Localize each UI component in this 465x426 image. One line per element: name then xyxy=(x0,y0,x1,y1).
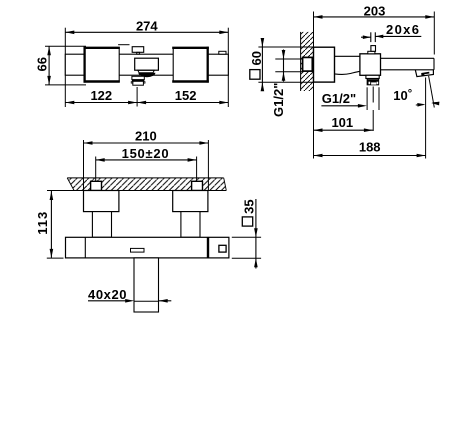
outlet ext right xyxy=(378,87,380,110)
dim 152 left arrow xyxy=(137,101,146,105)
dim 66 extension bottom xyxy=(45,84,86,86)
diverter block side xyxy=(360,54,381,76)
outlet ext left xyxy=(366,87,368,110)
wall left edge side xyxy=(300,32,302,91)
40x20 leader right xyxy=(159,300,172,302)
right inlet nut xyxy=(192,181,203,190)
dim G1/2 wall ext bottom xyxy=(275,71,302,73)
dim 113 bottom arrow xyxy=(50,249,54,258)
square symbol 35 xyxy=(242,217,252,226)
dim 122 right arrow xyxy=(128,101,137,105)
dim 150 ext left xyxy=(95,157,97,182)
svg-text:150±20: 150±20 xyxy=(122,146,169,161)
escutcheon xyxy=(314,47,335,82)
spout neck plan xyxy=(132,76,144,79)
svg-text:188: 188 xyxy=(359,140,381,155)
angle left arrow leader xyxy=(416,104,424,106)
angle left arrow xyxy=(417,103,425,107)
top knob plan xyxy=(132,47,144,53)
40x20 right arrow xyxy=(159,299,168,303)
right pipe xyxy=(181,212,200,238)
outlet nut white slot right xyxy=(377,82,379,85)
dim 35 ext top xyxy=(232,236,261,238)
wall hatch band front xyxy=(67,178,226,191)
body left cap line xyxy=(84,237,86,258)
20x6 tick right xyxy=(374,32,376,42)
angle right arrow xyxy=(431,102,439,106)
knob stem plan xyxy=(137,52,140,54)
angle vertical reference xyxy=(425,78,427,159)
dim 60 ext bottom xyxy=(258,81,313,83)
spout dark ring plan xyxy=(132,80,144,82)
body front xyxy=(66,237,229,258)
left handle plan xyxy=(84,48,119,82)
center extension line xyxy=(136,87,138,107)
wall face line side xyxy=(313,12,315,159)
20x6 tick left xyxy=(370,32,372,42)
diverter taper plan xyxy=(138,70,155,73)
dim 210 left arrow xyxy=(84,141,93,145)
dim 60 ext top xyxy=(258,46,313,48)
outlet center ext upper xyxy=(372,87,374,103)
left pipe xyxy=(92,212,111,238)
dim 113 line xyxy=(50,191,52,258)
spout end right tick xyxy=(143,82,145,83)
20x6 right leader xyxy=(375,35,421,37)
body slot xyxy=(131,248,145,252)
outlet nut white slot left xyxy=(369,82,371,85)
40x20 left arrow xyxy=(125,299,134,303)
dim 35 ext bottom xyxy=(232,257,261,259)
dim 203 left arrow xyxy=(314,15,323,19)
dim G1/2 wall bottom arrow xyxy=(282,72,286,81)
spout tube top xyxy=(381,57,435,59)
dim 66 top arrow xyxy=(47,46,51,55)
extension line plan left end xyxy=(64,28,66,107)
20x6 left arrow xyxy=(363,35,371,39)
aerator slot blob xyxy=(421,74,424,76)
20x6 right arrow xyxy=(375,35,383,39)
spout end piece plan xyxy=(133,81,144,85)
dim 35 bottom arrow outside xyxy=(254,258,258,267)
dim 210 ext left xyxy=(83,140,85,191)
svg-text:203: 203 xyxy=(364,3,386,18)
svg-text:35: 35 xyxy=(241,199,256,213)
G1/2 outlet arrow xyxy=(358,104,367,108)
outlet center ext lower xyxy=(372,110,374,131)
aerator tilted xyxy=(415,70,433,77)
svg-text:122: 122 xyxy=(90,88,112,103)
dim 101 left arrow xyxy=(314,128,323,132)
dim 203 right arrow xyxy=(425,15,434,19)
dim 66 line xyxy=(48,46,50,85)
diverter dark collar plan xyxy=(138,73,155,77)
dim 210 right arrow xyxy=(199,141,208,145)
outlet nut dark body xyxy=(368,79,379,84)
dim G1/2 wall top arrow xyxy=(282,50,286,59)
aerator slot xyxy=(421,73,429,74)
dim 188 left arrow xyxy=(314,154,323,158)
outlet nut white center xyxy=(371,82,376,84)
right union block xyxy=(173,191,208,212)
spout tube bottom xyxy=(381,69,435,71)
dim 150 ext right xyxy=(196,157,198,182)
dim 150 left arrow xyxy=(96,158,105,162)
spout front xyxy=(134,258,159,312)
dim 188 line xyxy=(314,155,426,157)
wall band right cut xyxy=(224,178,227,191)
left inlet nut xyxy=(91,181,102,190)
dim 60 bottom arrow outside xyxy=(261,82,265,91)
faucet body plan xyxy=(65,54,228,75)
dim 150 right arrow xyxy=(188,158,197,162)
body right square xyxy=(219,245,226,252)
spout inner line xyxy=(134,300,159,302)
extension line plan right end xyxy=(227,28,229,107)
knob cap side xyxy=(368,51,375,54)
dim 152 right arrow xyxy=(219,101,228,105)
dim G1/2 wall ext top xyxy=(275,58,302,60)
dim 66 bottom arrow xyxy=(47,76,51,85)
20x6 left leader xyxy=(361,36,371,38)
dim 210 ext right xyxy=(207,140,209,191)
right end bump plan xyxy=(219,51,226,54)
outlet nut below block xyxy=(367,79,378,85)
svg-text:G1/2": G1/2" xyxy=(322,91,356,106)
dim 113 top arrow xyxy=(50,191,54,200)
svg-text:40x20: 40x20 xyxy=(88,287,127,302)
svg-text:210: 210 xyxy=(135,129,157,144)
spout end left tick xyxy=(131,82,133,83)
diverter housing plan xyxy=(135,58,159,70)
dim 101 right arrow xyxy=(364,128,373,132)
dim 122/152 line xyxy=(65,102,228,104)
dim 66 extension top xyxy=(45,45,86,47)
extension line spout tip xyxy=(433,12,435,55)
svg-text:60: 60 xyxy=(249,51,264,65)
dim 60 line xyxy=(261,39,263,90)
dim 274 left arrow xyxy=(65,31,74,35)
svg-text:152: 152 xyxy=(175,88,197,103)
angle right arrow leader xyxy=(433,101,440,104)
body tube top side xyxy=(335,55,360,57)
right handle plan xyxy=(173,48,208,82)
spout tube end xyxy=(433,58,435,70)
wall band top edge xyxy=(67,177,224,179)
G1/2 outlet leader xyxy=(321,105,360,107)
dim 210 line xyxy=(84,142,209,144)
dim 113 ext bottom xyxy=(47,257,64,259)
dim 150 line xyxy=(96,159,197,161)
wall inlet fitting xyxy=(303,57,313,71)
dim 60 top arrow outside xyxy=(261,38,265,47)
dim 188 right arrow xyxy=(417,154,426,158)
dim 101 line xyxy=(314,129,373,131)
dim 122 left arrow xyxy=(65,101,74,105)
body right cap thick line xyxy=(207,237,209,258)
dim 35 line xyxy=(255,199,257,269)
square symbol 60 xyxy=(250,70,260,80)
40x20 leader left xyxy=(88,300,127,302)
dim 203 line xyxy=(314,16,435,18)
wall hatch side xyxy=(301,32,314,91)
svg-text:10°: 10° xyxy=(393,88,412,103)
svg-text:20x6: 20x6 xyxy=(386,22,419,37)
left union block xyxy=(84,191,119,212)
svg-text:G1/2": G1/2" xyxy=(271,83,286,117)
dim 35 top arrow outside xyxy=(254,228,258,237)
svg-text:101: 101 xyxy=(331,115,353,130)
dim 274 line xyxy=(65,31,228,33)
knob stem side xyxy=(371,46,376,52)
wall face line front xyxy=(47,190,226,192)
dim G1/2 wall line xyxy=(283,50,285,82)
dim 274 right arrow xyxy=(219,31,228,35)
svg-text:274: 274 xyxy=(136,19,158,34)
body tube bottom wavy xyxy=(335,71,360,74)
svg-text:66: 66 xyxy=(34,57,49,71)
wall band left cut xyxy=(67,178,74,191)
angle tilted line xyxy=(429,76,435,108)
svg-text:113: 113 xyxy=(35,212,50,235)
outlet flange below block xyxy=(366,75,379,78)
step line handle to knob xyxy=(118,44,129,46)
